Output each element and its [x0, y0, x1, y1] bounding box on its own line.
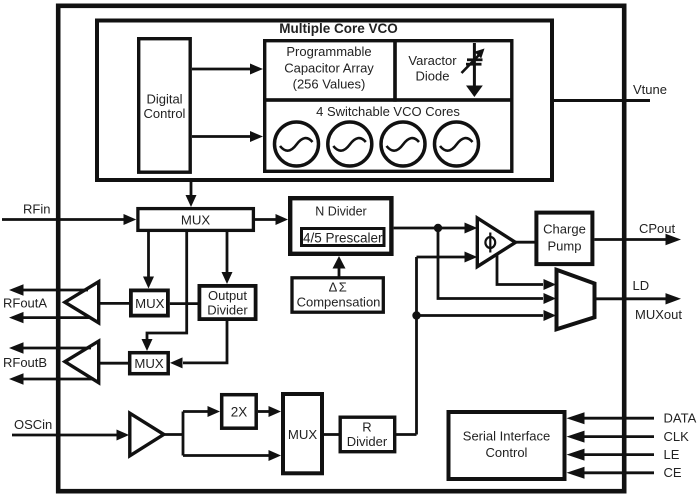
4/5 Prescaler block: [302, 229, 385, 246]
output buffer B: [65, 341, 99, 383]
svg-text:LD: LD: [633, 278, 650, 293]
wire: branch to 2X doubler: [183, 406, 220, 417]
wire: N Divider output to phase detector: [394, 223, 478, 234]
wire: Output Divider down to MUX B: [170, 321, 227, 368]
svg-text:Serial Interface: Serial Interface: [463, 429, 550, 444]
svg-text:(256 Values): (256 Values): [293, 77, 366, 92]
LE input wire: [567, 447, 680, 462]
svg-text:Control: Control: [486, 445, 528, 460]
2X doubler block: [222, 395, 257, 429]
svg-text:Pump: Pump: [548, 239, 582, 254]
VCO core oscillator 4: [435, 122, 479, 166]
svg-text:Divider: Divider: [207, 303, 248, 318]
wire: R divider feedback vertical: [415, 257, 418, 435]
Charge Pump block: [536, 213, 592, 265]
svg-text:OSCin: OSCin: [14, 417, 52, 432]
Serial Interface Control block: [449, 412, 565, 479]
wire: R path to phase detector input 2: [417, 252, 478, 263]
Programmable Capacitor Array block: [265, 41, 395, 100]
varactor diode symbol: [462, 43, 485, 97]
CE input wire: [567, 465, 682, 480]
N Divider block: [290, 198, 391, 254]
wire: MUX B to buffer B: [99, 362, 132, 365]
CPout output wire: [594, 221, 681, 245]
svg-text:RFoutA: RFoutA: [3, 296, 47, 311]
svg-text:RFin: RFin: [23, 202, 50, 217]
junction: N divider output node: [434, 224, 442, 232]
wire: 2X to reference MUX: [258, 406, 281, 417]
VCO core oscillator 3: [381, 122, 425, 166]
wire: MUX A to Output Divider: [170, 302, 198, 305]
svg-text:Vtune: Vtune: [633, 82, 667, 97]
LD / MUXout output wire: [595, 278, 683, 322]
svg-text:Charge: Charge: [543, 222, 586, 237]
wire: main MUX down-left to MUX B: [142, 231, 187, 352]
wire: feedback branch down to mux input 2: [438, 228, 556, 304]
wire: Digital Control to VCO Cores: [192, 131, 263, 142]
svg-text:Programmable: Programmable: [286, 44, 371, 59]
svg-text:R: R: [362, 420, 371, 435]
svg-text:4 Switchable VCO Cores: 4 Switchable VCO Cores: [316, 104, 460, 119]
wire: R Divider output: [396, 433, 417, 436]
svg-text:Divider: Divider: [347, 434, 388, 449]
wire: main MUX down to MUX A: [143, 231, 154, 289]
svg-text:MUX: MUX: [181, 213, 211, 228]
phase detector: [477, 218, 515, 267]
wire: phase detector to charge pump: [515, 241, 537, 244]
MUX A block: [131, 290, 168, 315]
svg-text:CPout: CPout: [639, 221, 676, 236]
wire: VCO to main MUX: [186, 180, 197, 207]
svg-text:Capacitor Array: Capacitor Array: [284, 61, 374, 76]
svg-text:N Divider: N Divider: [315, 205, 366, 219]
svg-text:4/5 Prescaler: 4/5 Prescaler: [303, 231, 383, 246]
RFin input wire: [2, 202, 136, 226]
wire: reference MUX to R Divider: [324, 433, 339, 436]
svg-text:Control: Control: [144, 106, 186, 121]
main MUX block: [138, 209, 254, 231]
Digital Control block: [139, 39, 191, 173]
output mux (trapezoid): [557, 270, 595, 330]
svg-text:Compensation: Compensation: [297, 295, 381, 310]
wire: MUX A to buffer A: [99, 302, 132, 305]
VCO core oscillator 1: [275, 122, 319, 166]
wire: branch to reference MUX: [183, 450, 281, 461]
VCO core oscillator 2: [328, 122, 372, 166]
svg-text:Digital: Digital: [146, 92, 182, 107]
Varactor Diode block: [395, 41, 512, 100]
wire: buffer output branch: [164, 433, 183, 436]
Delta Sigma Compensation block: [292, 278, 383, 312]
svg-text:LE: LE: [664, 447, 680, 462]
wire: Vtune output: [551, 82, 667, 101]
chip outline: [58, 6, 624, 491]
svg-text:RFoutB: RFoutB: [3, 355, 47, 370]
wire: Digital Control to Capacitor Array: [192, 64, 263, 75]
svg-text:MUX: MUX: [134, 356, 164, 371]
svg-text:ΔΣ: ΔΣ: [329, 280, 349, 295]
svg-text:MUX: MUX: [288, 427, 318, 442]
wire: phase detector tap to output mux input 1: [497, 254, 556, 290]
junction: R feedback node: [412, 311, 420, 319]
svg-text:MUX: MUX: [135, 296, 165, 311]
Multiple Core VCO box: [97, 21, 552, 181]
svg-text:CLK: CLK: [664, 429, 690, 444]
svg-text:2X: 2X: [231, 405, 248, 420]
4 Switchable VCO Cores box: [265, 100, 512, 171]
svg-text:Multiple Core VCO: Multiple Core VCO: [279, 21, 398, 36]
Output Divider block: [199, 286, 255, 319]
wire: R feedback to output mux input 3: [417, 310, 557, 321]
svg-text:CE: CE: [664, 465, 682, 480]
RFoutA output wire pair: [3, 284, 89, 323]
svg-text:Varactor: Varactor: [408, 53, 457, 68]
svg-text:Output: Output: [208, 288, 247, 303]
input buffer: [130, 413, 164, 456]
wire: main MUX to N Divider: [255, 214, 288, 225]
DATA input wire: [567, 411, 697, 426]
R Divider block: [340, 417, 395, 452]
svg-text:DATA: DATA: [664, 411, 697, 426]
OSCin input wire: [12, 417, 129, 441]
wire: Compensation to N Divider: [333, 256, 346, 278]
reference MUX block: [283, 394, 322, 473]
svg-text:Diode: Diode: [416, 69, 450, 84]
MUX B block: [130, 353, 169, 374]
output buffer A: [65, 282, 99, 323]
svg-text:MUXout: MUXout: [635, 307, 682, 322]
RFoutB output wire pair: [3, 342, 94, 384]
wire: main MUX down to Output Divider: [222, 231, 233, 285]
CLK input wire: [567, 429, 690, 444]
